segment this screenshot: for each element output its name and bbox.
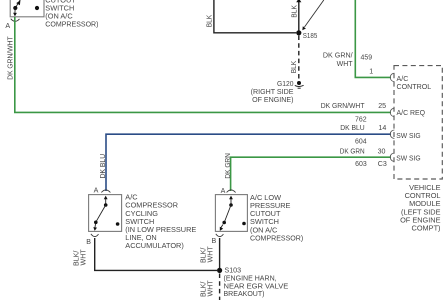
switch S2 pivot dot: [94, 221, 98, 225]
VCM pin arc 1: [390, 73, 394, 81]
switch S2 up arrow: [104, 196, 108, 200]
wire BLK dashed to G120: [298, 36, 300, 81]
connector A arc (cycling switch): [101, 190, 110, 193]
svg-text:A: A: [5, 22, 10, 30]
switch S3 pivot dot: [222, 221, 226, 225]
switch S1 lower terminal stem: [14, 10, 16, 14]
svg-text:DK GRN: DK GRN: [340, 147, 365, 155]
svg-text:A/C: A/C: [397, 75, 409, 83]
svg-text:DK GRN/WHT: DK GRN/WHT: [321, 102, 365, 110]
wire DK GRN from low pressure switch to VCM pin 30: [231, 157, 391, 191]
switch S2 blade: [96, 205, 106, 222]
svg-text:603: 603: [355, 160, 367, 168]
svg-text:OF ENGINE): OF ENGINE): [252, 96, 293, 104]
switch S3 up arrow: [229, 196, 233, 200]
svg-text:BLK: BLK: [290, 61, 298, 74]
wire DK GRN/WHT from top-left switch to VCM pin 25: [15, 17, 391, 112]
svg-text:S185: S185: [303, 32, 318, 40]
svg-text:DK BLU: DK BLU: [340, 124, 365, 132]
svg-text:604: 604: [355, 138, 367, 146]
connector B arc (cycling switch): [91, 234, 99, 237]
svg-text:DK GRN/: DK GRN/: [323, 52, 353, 60]
switch S3 down arrow: [221, 225, 223, 228]
svg-text:WHT: WHT: [79, 249, 87, 266]
svg-text:25: 25: [378, 102, 386, 110]
switch S3 fixed contact dot: [242, 222, 246, 226]
switch S1 blade arrowhead: [16, 0, 20, 5]
module U1 VCM dashed box: [394, 66, 442, 179]
svg-text:CONTROL: CONTROL: [397, 83, 432, 91]
svg-text:B: B: [86, 238, 91, 246]
wire BLK/WHT dashed below S103: [219, 274, 221, 300]
VCM pin arc 30: [390, 153, 394, 161]
switch S3 blade: [224, 205, 231, 222]
connector A arc (low pressure switch): [227, 190, 236, 193]
svg-text:BLK: BLK: [206, 15, 214, 28]
svg-text:COMPRESSOR): COMPRESSOR): [45, 19, 98, 28]
splice S185: [296, 30, 301, 35]
svg-text:DK GRN: DK GRN: [224, 153, 232, 179]
switch S2 A/C compressor cycling switch box: [89, 195, 122, 232]
arrowhead BLK wire top (cut off): [296, 0, 301, 2]
svg-text:A: A: [94, 187, 99, 195]
VCM pin arc 25: [390, 108, 394, 116]
ground G120 dot: [297, 81, 301, 85]
svg-text:WHT: WHT: [337, 60, 354, 68]
svg-text:COMPT): COMPT): [412, 224, 441, 233]
switch S3 A/C low pressure cutout switch box: [215, 195, 247, 232]
svg-text:30: 30: [378, 147, 386, 155]
svg-text:DK BLU: DK BLU: [99, 154, 107, 179]
svg-text:WHT: WHT: [206, 280, 214, 297]
switch S1 blade: [15, 0, 21, 8]
connector A arc (below top-left switch): [11, 19, 20, 22]
switch S1 terminal dot right: [35, 6, 39, 10]
svg-text:WHT: WHT: [206, 246, 214, 263]
svg-text:B: B: [211, 237, 216, 245]
svg-text:14: 14: [378, 124, 386, 132]
switch S2 down arrow: [94, 224, 97, 228]
svg-text:BREAKOUT): BREAKOUT): [224, 289, 265, 298]
wire DK BLU from cycling switch to VCM pin 14: [106, 134, 391, 191]
switch S2 fixed contact dot: [116, 222, 120, 226]
splice S103: [217, 268, 222, 273]
switch S3 top terminal dot: [229, 203, 233, 207]
switch S1 terminal dot left: [13, 6, 17, 10]
wire BLK (right vertical into S185): [298, 0, 300, 31]
wire DK GRN/WHT 459 to VCM pin 1: [355, 0, 391, 77]
switch S1 A/C high pressure cutout switch box (top left, cut off): [10, 0, 44, 17]
wire BLK/WHT from cycling switch to S103: [95, 238, 217, 270]
leader arrow line to S185: [305, 0, 324, 27]
svg-text:DK GRN/WHT: DK GRN/WHT: [7, 36, 15, 80]
svg-text:459: 459: [361, 54, 373, 62]
svg-text:A: A: [221, 187, 226, 195]
svg-text:A/C REQ: A/C REQ: [397, 109, 426, 117]
svg-text:G120: G120: [277, 80, 294, 88]
svg-text:COMPRESSOR): COMPRESSOR): [250, 233, 303, 242]
svg-text:1: 1: [369, 68, 373, 76]
svg-text:SW SIG: SW SIG: [396, 154, 420, 162]
switch S1 down arrowhead: [13, 13, 17, 17]
wire BLK/WHT from low pressure switch to S103: [219, 238, 221, 268]
svg-text:SW SIG: SW SIG: [396, 132, 420, 140]
connector B arc (low pressure switch): [216, 234, 224, 237]
leader arrowhead: [302, 26, 306, 30]
svg-text:ACCUMULATOR): ACCUMULATOR): [125, 241, 183, 250]
ground G120 bars: [295, 85, 304, 86]
svg-text:762: 762: [355, 116, 367, 124]
VCM pin arc 14: [390, 130, 394, 138]
svg-text:BLK: BLK: [291, 5, 299, 18]
svg-text:(RIGHT SIDE: (RIGHT SIDE: [251, 88, 294, 96]
switch S2 top terminal dot: [104, 203, 108, 207]
wire BLK (left vertical + horizontal into S185): [214, 0, 296, 33]
svg-text:C3: C3: [378, 160, 387, 168]
